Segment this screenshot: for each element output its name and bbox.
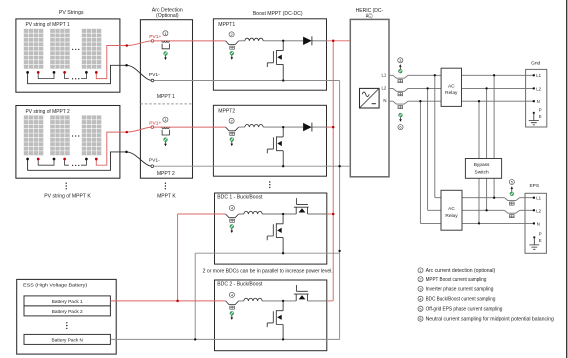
wire EPS row L2	[428, 209, 534, 211]
svg-text:L1: L1	[536, 73, 541, 78]
svg-text:Neutral current sampling for m: Neutral current sampling for midpoint po…	[426, 317, 555, 323]
terminal dots box 2	[26, 158, 97, 161]
node L1 branch dot	[434, 74, 436, 76]
PV2+ output wire red	[96, 127, 152, 165]
Battery Pack N	[24, 334, 110, 344]
dashed divider between MPPT 1 and MPPT 2 channels	[140, 103, 192, 105]
vertical ellipsis below arc box	[165, 183, 166, 190]
shunt mosfet Q6 BDC2	[267, 301, 283, 340]
green sample dot MPPT2	[230, 138, 234, 142]
series mosfet Q3 BDC1	[294, 198, 309, 214]
series link wire 1 box 2	[38, 159, 54, 165]
wire MPPT2 output red to bus	[327, 126, 334, 128]
up arrow sensor 5	[510, 186, 513, 191]
green sample dot channel 1	[164, 51, 168, 55]
Grid box	[526, 69, 547, 127]
ellipsis between panels box 2	[72, 135, 80, 136]
svg-text:EPS: EPS	[529, 183, 539, 189]
node DC- bus BDC1 junction dot	[338, 250, 340, 252]
svg-text:PV string of MPPT 2: PV string of MPPT 2	[26, 109, 70, 115]
wire L2 HERIC to grid	[389, 87, 534, 89]
node BDC1 rail dot	[282, 252, 284, 254]
svg-text:L1: L1	[536, 196, 541, 201]
wire EPS row N	[420, 222, 534, 224]
ellipsis terminal row box 1	[72, 78, 80, 79]
grid terminal dot L2	[533, 87, 535, 89]
svg-text:MPPT 1: MPPT 1	[157, 94, 175, 100]
down arrow channel 1	[164, 55, 167, 60]
svg-text:1: 1	[164, 31, 166, 36]
inductor MPPT1	[245, 38, 263, 41]
AC Relay box grid side	[441, 68, 461, 106]
svg-text:E: E	[539, 238, 542, 243]
PV box 1 internals: panels, links, terminals	[24, 29, 44, 69]
node DC+ bus MPPT2 dot	[332, 126, 335, 129]
svg-text:L2: L2	[536, 86, 541, 91]
inverter symbol U1	[360, 88, 380, 108]
svg-text:AC: AC	[448, 83, 455, 89]
down arrow sensor 6	[399, 117, 402, 122]
node MPPT2 rail dot	[282, 165, 284, 167]
node N branch dot	[419, 100, 421, 102]
mosfet Q2 MPPT2	[267, 127, 283, 166]
inductor BDC2	[244, 298, 262, 301]
green sample dot sensor 5	[510, 192, 514, 196]
legend item 3	[418, 286, 423, 291]
wire DC- bus vertical	[339, 81, 341, 340]
BDC 1 box	[215, 193, 327, 264]
green sample dot BDC1	[230, 224, 234, 228]
node junction dot PV2+	[126, 131, 129, 134]
svg-text:2: 2	[231, 118, 233, 123]
svg-text:N: N	[383, 98, 386, 103]
HERIC inverter box	[350, 19, 389, 176]
svg-text:PV string of MPPT 1: PV string of MPPT 1	[26, 22, 70, 28]
up arrow sensor 3	[399, 64, 402, 69]
node junction dot PV2-	[125, 151, 128, 154]
node DC+ bus MPPT1 dot	[332, 40, 335, 43]
svg-text:AC: AC	[448, 206, 455, 212]
circled 2 MPPT2	[229, 118, 234, 123]
svg-text:3: 3	[399, 58, 401, 63]
node battery positive junction dot	[176, 300, 179, 303]
svg-text:Relay: Relay	[445, 90, 458, 96]
svg-text:PV1+: PV1+	[149, 120, 161, 125]
node EPS L2 bypass dot	[485, 209, 487, 211]
node BDC2 switch dot	[282, 300, 284, 302]
wire BDC1 output red	[327, 213, 333, 215]
svg-text:BDC 1 - Buck/Boost: BDC 1 - Buck/Boost	[217, 195, 263, 201]
svg-text:Battery Pack N: Battery Pack N	[51, 337, 83, 343]
Arc Detection box	[140, 20, 192, 179]
node DC- bus MPPT2 junction dot	[338, 165, 340, 167]
svg-text:P: P	[539, 232, 542, 237]
PV1+ output wire red	[96, 41, 152, 79]
page edge line right	[566, 0, 568, 358]
wire vertical branch N to EPS relay	[419, 101, 421, 223]
CT core BDC1	[230, 219, 235, 222]
svg-text:Arc current detection (optiona: Arc current detection (optional)	[426, 268, 496, 274]
PV1- output wire black	[28, 65, 153, 83]
PV string box 2	[16, 106, 120, 179]
CT dip L1 grid	[393, 75, 408, 78]
CT dip MPPT1	[226, 41, 239, 45]
down arrow BDC1	[230, 228, 233, 233]
svg-text:(Optional): (Optional)	[156, 13, 179, 19]
wire PV2+ red channel 2 to MPPT2 CT	[153, 126, 225, 128]
circled 6 neutral current sampling	[398, 125, 403, 130]
wire vertical branch L2 to EPS relay	[427, 88, 429, 210]
svg-text:MPPT 2: MPPT 2	[157, 171, 175, 177]
svg-text:Switch: Switch	[475, 169, 489, 175]
green sample dot sensor 3	[398, 69, 402, 73]
svg-text:N: N	[537, 99, 540, 104]
wire bypass vertical N	[478, 101, 480, 223]
svg-text:L1: L1	[382, 72, 387, 77]
circled 4 BDC2	[229, 292, 234, 297]
svg-text:L2: L2	[382, 85, 387, 90]
legend item 4	[418, 296, 423, 301]
svg-text:Battery Pack 2: Battery Pack 2	[52, 309, 83, 315]
node grid N bypass dot	[478, 100, 480, 102]
wire MPPT1 internal after CT	[239, 40, 327, 42]
ground symbol EPS	[529, 236, 539, 249]
CT dip BDC2	[226, 301, 239, 305]
Battery Pack 2	[24, 306, 110, 316]
wire vertical branch L1 to EPS relay	[434, 75, 436, 197]
wire MPPT1 output red to bus	[327, 40, 351, 42]
circled 1 channel 2	[163, 117, 168, 122]
svg-text:6: 6	[399, 125, 401, 130]
down arrow MPPT2	[230, 142, 233, 147]
terminal dots box 1	[26, 71, 97, 74]
node grid L1 bypass dot	[493, 74, 495, 76]
svg-text:N: N	[537, 221, 540, 226]
mosfet Q1 MPPT1	[267, 41, 283, 80]
wire BDC1 internal	[239, 213, 327, 215]
CT dip MPPT2	[226, 127, 239, 131]
svg-text:Off-grid EPS phase current sam: Off-grid EPS phase current sampling	[426, 307, 503, 313]
PV2- output wire black	[28, 152, 153, 170]
ellipsis between panels box 1	[72, 49, 80, 50]
node BDC1 switch dot	[282, 213, 284, 215]
green sample dot BDC2	[230, 311, 234, 315]
svg-text:Inverter phase current samplin: Inverter phase current sampling	[426, 287, 494, 293]
PV box 2 internals	[24, 115, 44, 155]
legend item 1	[418, 268, 423, 273]
svg-text:AC): AC)	[366, 13, 373, 19]
wire DC- rail MPPT1	[154, 80, 340, 82]
grid terminal dot N	[533, 100, 535, 102]
svg-text:MPPT2: MPPT2	[218, 109, 235, 115]
legend item 5	[418, 306, 423, 311]
wire EPS row L1	[435, 197, 534, 199]
wire battery negative vertical	[194, 253, 196, 339]
EPS terminal dot L2	[533, 209, 535, 211]
svg-text:Relay: Relay	[445, 213, 458, 219]
Bypass Switch box	[465, 159, 501, 179]
PV string box 1	[16, 19, 120, 92]
svg-text:P: P	[539, 107, 542, 112]
svg-text:PV Strings: PV Strings	[59, 10, 84, 16]
vertical ellipsis battery packs	[66, 322, 67, 329]
green sample dot sensor 6	[399, 113, 403, 117]
node L2 branch dot	[426, 87, 428, 89]
ground symbol grid	[529, 112, 539, 125]
wire DC- rail BDC1	[195, 252, 339, 254]
svg-text:BDC Buck/Boost current samplin: BDC Buck/Boost current sampling	[426, 297, 496, 303]
diode D1 MPPT1	[303, 36, 312, 45]
Battery Pack 1	[24, 296, 110, 306]
node junction dot PV1-	[125, 64, 128, 67]
CT dip EPS L1	[504, 198, 519, 201]
wire battery positive red	[110, 214, 225, 301]
svg-text:MPPT1: MPPT1	[218, 22, 235, 28]
wire bypass vertical L1	[493, 75, 495, 197]
svg-text:1: 1	[164, 117, 166, 122]
EPS terminal dot L1	[533, 197, 535, 199]
AC Relay box EPS side	[441, 190, 462, 230]
vertical ellipsis between MPPT2 and BDC1	[269, 181, 270, 188]
circled 4 BDC1	[229, 205, 234, 210]
inductor MPPT2	[245, 124, 263, 127]
CT core L1 grid	[398, 80, 403, 83]
wire battery negative rail BDC2	[110, 338, 339, 340]
node MPPT2 switch dot	[282, 126, 284, 128]
green sample dot channel 2	[164, 138, 168, 142]
svg-text:Grid: Grid	[531, 61, 540, 67]
svg-text:PV string of MPPT K: PV string of MPPT K	[44, 194, 91, 200]
wire BDC2 output red	[327, 300, 333, 302]
svg-text:Boost MPPT (DC-DC): Boost MPPT (DC-DC)	[253, 11, 303, 17]
svg-text:E: E	[539, 114, 542, 119]
wire DC+ bus vertical red	[332, 41, 334, 301]
CT dip L2 grid	[393, 88, 408, 91]
svg-text:2 or more BDCs can be in paral: 2 or more BDCs can be in parallel to inc…	[203, 269, 333, 275]
node battery negative junction dot	[194, 338, 196, 340]
wire bypass vertical L2	[486, 88, 488, 210]
arc CT sensor channel 2	[162, 127, 170, 135]
svg-text:PV1-: PV1-	[149, 72, 160, 77]
EPS box	[525, 193, 546, 253]
wire DC- rail MPPT2 into HERIC	[153, 165, 350, 167]
CT dip N grid	[393, 101, 408, 104]
Boost converter box MPPT2	[213, 105, 326, 176]
node EPS L1 bypass dot	[493, 197, 495, 199]
legend item 6	[418, 316, 423, 321]
inductor BDC1	[244, 211, 262, 214]
node BDC2 rail dot	[282, 338, 284, 340]
wire PV1+ red channel 1 to MPPT1 CT	[154, 40, 226, 42]
node MPPT1 rail dot	[282, 79, 284, 81]
vertical ellipsis below PV boxes	[66, 183, 67, 190]
circled 2 MPPT1	[229, 32, 234, 37]
down arrow BDC2	[230, 315, 233, 320]
circled 5 EPS current sampling	[509, 179, 514, 184]
diode D2 MPPT2	[303, 123, 312, 132]
svg-text:6: 6	[419, 316, 421, 321]
node junction dot PV1+	[126, 44, 129, 47]
CT core N grid	[398, 106, 403, 109]
CT core EPS L2	[510, 215, 515, 218]
svg-text:1: 1	[419, 268, 421, 273]
svg-text:Battery Pack 1: Battery Pack 1	[52, 299, 83, 305]
wire N HERIC to grid	[389, 100, 534, 102]
svg-text:ESS (High Voltage Battery): ESS (High Voltage Battery)	[23, 282, 87, 288]
grid terminal dot L1	[533, 74, 535, 76]
arc CT sensor channel 1	[162, 41, 170, 49]
svg-text:5: 5	[511, 180, 513, 185]
legend item 2	[418, 277, 423, 282]
node DC+ bus BDC1 dot	[332, 213, 335, 216]
ellipsis terminal row box 2	[72, 165, 80, 166]
series link wire 1 box 1	[38, 72, 54, 78]
CT dip EPS L2	[504, 210, 519, 213]
svg-text:3: 3	[419, 286, 421, 291]
down arrow MPPT1	[230, 55, 233, 60]
CT dip BDC1	[226, 214, 239, 218]
svg-text:5: 5	[419, 306, 421, 311]
EPS terminal dot N	[533, 222, 535, 224]
svg-text:MPPT Boost current sampling: MPPT Boost current sampling	[426, 277, 487, 283]
svg-text:PV1+: PV1+	[149, 34, 161, 39]
wire L1 HERIC to grid	[389, 74, 534, 76]
svg-text:2: 2	[231, 32, 233, 37]
down arrow channel 2	[164, 142, 167, 147]
BDC 2 box	[215, 280, 327, 351]
node grid L2 bypass dot	[485, 87, 487, 89]
svg-text:PV1-: PV1-	[149, 158, 160, 163]
series link wire 2 box 1	[65, 72, 87, 78]
node EPS N bypass dot	[478, 222, 480, 224]
circled 3 inverter current sampling	[398, 58, 403, 63]
CT core MPPT2	[230, 132, 235, 135]
svg-text:L2: L2	[536, 208, 541, 213]
series mosfet Q5 BDC2	[294, 285, 309, 301]
shunt mosfet Q4 BDC1	[267, 214, 283, 253]
svg-text:Bypass: Bypass	[474, 162, 490, 168]
circled 1 channel 1	[163, 31, 168, 36]
series link wire 2 box 2	[65, 159, 87, 165]
node MPPT1 switch dot	[282, 40, 284, 42]
svg-text:BDC 2 - Buck/Boost: BDC 2 - Buck/Boost	[217, 282, 263, 288]
wire MPPT2 internal after CT	[239, 126, 327, 128]
CT core L2 grid	[398, 93, 403, 96]
svg-text:MPPT K: MPPT K	[157, 194, 176, 200]
green sample dot MPPT1	[230, 51, 234, 55]
CT core BDC2	[230, 306, 235, 309]
svg-text:2: 2	[419, 277, 421, 282]
CT core MPPT1	[230, 46, 235, 49]
CT core EPS L1	[510, 202, 515, 205]
ESS battery box	[17, 279, 117, 354]
wire BDC2 internal	[239, 300, 327, 302]
Boost converter box MPPT1	[213, 19, 326, 90]
